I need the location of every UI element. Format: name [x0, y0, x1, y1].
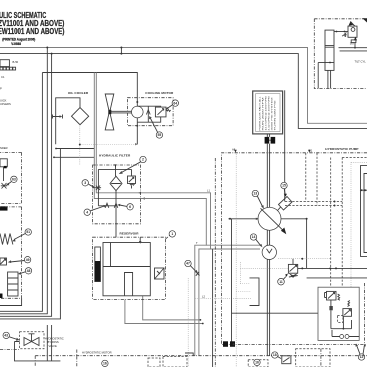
- svg-text:13: 13: [253, 192, 257, 196]
- svg-text:11: 11: [279, 280, 283, 284]
- svg-text:V-0938: V-0938: [11, 42, 21, 46]
- svg-text:C1: C1: [1, 75, 5, 79]
- svg-text:TURN 500 PSI: TURN 500 PSI: [275, 100, 277, 131]
- svg-text:L1: L1: [207, 189, 210, 193]
- svg-text:16: 16: [255, 361, 259, 365]
- svg-text:L2: L2: [202, 294, 205, 298]
- svg-text:UICK: UICK: [0, 98, 7, 102]
- svg-text:3000 PSI SYSTEM: 3000 PSI SYSTEM: [272, 97, 274, 130]
- svg-text:14: 14: [252, 235, 256, 239]
- svg-text:COOLING MOTOR: COOLING MOTOR: [145, 91, 174, 95]
- svg-text:55: 55: [158, 133, 162, 137]
- svg-text:64: 64: [173, 101, 177, 105]
- svg-text:B1: B1: [309, 149, 313, 153]
- svg-text:NDER: NDER: [0, 146, 8, 150]
- svg-text:HYDROSTATIC PUMP: HYDROSTATIC PUMP: [325, 147, 358, 151]
- svg-text:3: 3: [84, 181, 86, 185]
- svg-text:36T: 36T: [350, 42, 355, 46]
- svg-text:BY-PASS: BY-PASS: [48, 340, 59, 344]
- svg-text:6: 6: [129, 205, 131, 209]
- svg-text:48: 48: [27, 269, 31, 273]
- svg-text:HYDROSTATIC MOTOR: HYDROSTATIC MOTOR: [82, 350, 112, 354]
- svg-text:(SN 5EW11001 AND ABOVE): (SN 5EW11001 AND ABOVE): [0, 27, 65, 36]
- svg-text:RESERVOIR: RESERVOIR: [120, 231, 140, 235]
- svg-text:(PRINTED August 2006): (PRINTED August 2006): [2, 37, 35, 41]
- svg-text:51: 51: [26, 230, 30, 234]
- svg-text:RUN 2600 RPM: RUN 2600 RPM: [262, 97, 264, 130]
- svg-text:18: 18: [273, 353, 277, 357]
- svg-text:HYDRAULIC FILTER: HYDRAULIC FILTER: [99, 153, 131, 157]
- svg-text:VALVE: VALVE: [49, 344, 57, 348]
- svg-text:TILT CYL: TILT CYL: [355, 60, 367, 64]
- svg-text:OIL COOLER: OIL COOLER: [68, 91, 89, 95]
- svg-text:P: P: [0, 87, 2, 91]
- svg-text:16: 16: [103, 362, 107, 366]
- svg-text:43: 43: [4, 334, 8, 338]
- svg-text:UPLERS: UPLERS: [0, 102, 11, 106]
- svg-text:49: 49: [26, 258, 30, 262]
- svg-text:POWR-QUIK TACH-ALL: POWR-QUIK TACH-ALL: [258, 95, 261, 130]
- svg-text:15: 15: [282, 184, 286, 188]
- svg-text:4: 4: [86, 210, 88, 214]
- svg-text:63: 63: [12, 178, 16, 182]
- svg-text:B-50: B-50: [13, 60, 19, 64]
- svg-text:1: 1: [171, 232, 173, 236]
- svg-text:2: 2: [142, 158, 144, 162]
- svg-text:2.12 GPM @ 2500 RPM: 2.12 GPM @ 2500 RPM: [269, 96, 271, 130]
- svg-text:47: 47: [186, 262, 190, 266]
- svg-text:14.5 GPM @ 2300 RPM: 14.5 GPM @ 2300 RPM: [265, 96, 267, 130]
